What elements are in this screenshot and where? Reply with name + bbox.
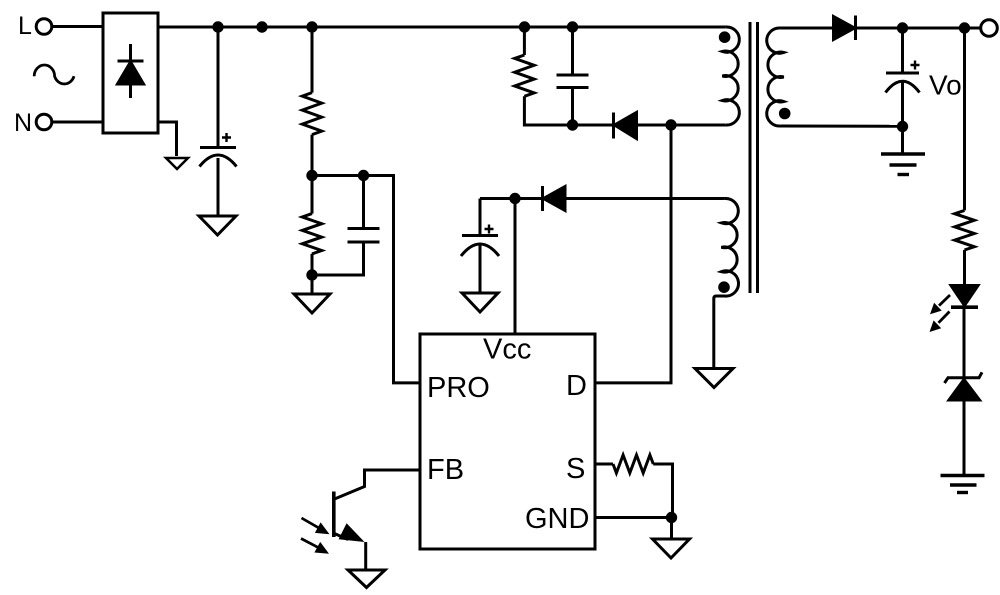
AC source symbol	[34, 65, 74, 84]
node vcc junction	[509, 193, 520, 204]
wire R2 to node B	[311, 254, 314, 275]
ground (output, earth style)	[881, 154, 925, 175]
node rail junction 3	[306, 21, 317, 32]
ground (optocoupler)	[348, 570, 385, 588]
resistor R3 snubber	[515, 55, 534, 96]
bridge rectifier BR1	[103, 13, 158, 133]
wire FB pin to optocoupler	[335, 470, 421, 499]
wire rail to C1	[217, 27, 220, 148]
node A2 junction	[358, 170, 369, 181]
wire C4 to ground	[479, 245, 482, 293]
node output junction 1	[897, 22, 908, 33]
wire rail to R1	[311, 27, 314, 93]
capacitor C3 snubber	[557, 75, 589, 88]
op-amp U1 controller IC	[420, 334, 595, 550]
wire node B to ground	[311, 275, 314, 294]
wire C3 to snubber bottom	[571, 88, 574, 126]
wire GND pin to junction	[595, 516, 672, 519]
ground (zener, earth style)	[941, 476, 985, 493]
svg-text:L: L	[18, 12, 32, 40]
wire C1 to ground	[217, 158, 220, 216]
wire N to bridge	[51, 121, 103, 124]
capacitor C1 bulk electrolytic	[200, 133, 237, 167]
svg-text:Vo: Vo	[929, 70, 962, 101]
wire node A to R2	[311, 176, 314, 214]
transformer T1 primary winding	[719, 27, 740, 125]
svg-text:S: S	[566, 453, 585, 485]
wire zener to ground	[963, 400, 966, 476]
wire rail to C3	[571, 27, 574, 75]
node L terminal	[18, 12, 52, 40]
node gnd junction	[666, 512, 677, 523]
transformer T1 secondary winding	[767, 28, 791, 126]
node B junction	[306, 269, 317, 280]
node A junction	[306, 170, 317, 181]
node N terminal	[14, 109, 52, 137]
wire D1 to drain node	[637, 124, 672, 127]
wire output to R5	[963, 28, 966, 210]
wire L to bridge	[51, 25, 103, 28]
wire secondary top to D3	[781, 27, 834, 30]
node output cap bottom junction	[897, 121, 908, 132]
transformer T1 auxiliary winding	[714, 198, 739, 368]
node rail junction 4	[519, 21, 530, 32]
transformer T1 core	[750, 22, 758, 293]
diode D3 output rectifier	[834, 16, 856, 41]
diode D1 clamp	[614, 113, 637, 139]
node rail junction 5	[567, 21, 578, 32]
wire R3 to snubber bottom	[524, 96, 613, 125]
wire D2 cathode to C4	[480, 197, 543, 200]
resistor R5 LED series	[955, 210, 975, 250]
svg-text:Vcc: Vcc	[483, 334, 531, 366]
node snubber bottom junction	[567, 119, 578, 130]
ground (node B)	[294, 294, 330, 313]
transistor Q1 optocoupler phototransistor	[301, 492, 365, 554]
svg-text:FB: FB	[427, 454, 464, 486]
resistor R1	[302, 93, 321, 135]
resistor R2	[302, 214, 321, 254]
node output junction 2	[959, 22, 970, 33]
svg-text:N: N	[14, 109, 32, 137]
resistor R4 sense	[613, 455, 653, 473]
node drain junction	[665, 119, 676, 130]
wire gnd junction to ground	[670, 518, 673, 540]
node rail junction 1	[212, 21, 223, 32]
diode D2 vcc rectifier	[543, 186, 566, 211]
ground (IC gnd)	[653, 539, 690, 558]
ground (C4)	[462, 293, 498, 312]
wire drain vertical to D pin	[595, 125, 671, 383]
svg-text:GND: GND	[525, 503, 589, 535]
wire R5 to LED	[963, 250, 966, 289]
wire D2 anode to aux top	[565, 197, 725, 200]
zener D5	[945, 372, 983, 400]
wire Q1 emitter to ground	[364, 542, 367, 570]
capacitor C4 vcc electrolytic	[461, 199, 499, 257]
wire S pin to R4	[595, 463, 613, 466]
wire D3 to output terminal	[856, 27, 982, 30]
wire vcc junction to Vcc pin	[514, 199, 517, 335]
node rail junction 2	[256, 21, 267, 32]
wire drain node to primary bottom	[671, 124, 726, 127]
capacitor C5 output electrolytic	[886, 28, 920, 93]
wire main HV rail	[158, 26, 726, 29]
wire LED to zener	[963, 308, 966, 379]
wire C5 to ground	[901, 82, 904, 154]
ground (aux winding)	[695, 369, 733, 388]
wire R4 to gnd junction	[653, 464, 672, 518]
svg-text:PRO: PRO	[427, 372, 490, 404]
wire R1 to node A	[311, 135, 314, 176]
ground (bridge)	[166, 158, 188, 169]
wire node A to PRO branch	[312, 176, 420, 383]
capacitor C2	[312, 176, 380, 276]
wire rail to R3	[523, 27, 526, 55]
LED D4	[930, 286, 979, 333]
svg-text:D: D	[566, 370, 587, 402]
node output terminal	[981, 20, 998, 37]
wire bridge bottom to ground	[158, 122, 177, 156]
ground (C1)	[199, 216, 236, 235]
wire secondary bottom to output cap	[781, 125, 903, 128]
